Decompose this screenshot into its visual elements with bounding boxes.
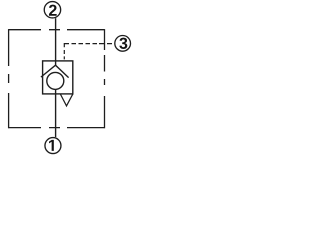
port 1 label [49,140,54,151]
port 2 label [49,5,57,16]
valve box [43,61,73,94]
envelope (dashed boundary) top edge [9,29,105,31]
port 3 label [119,38,127,49]
port 1 circle [45,138,61,154]
envelope left edge [8,29,10,128]
port 2 circle [44,2,60,18]
seat (V) [41,65,69,77]
pilot dashed line (corner + vertical to box) [64,44,69,60]
pilot dashed line horizontal to port3 [72,43,113,45]
port 3 circle [115,36,131,52]
envelope right edge [104,29,106,128]
envelope bottom edge [9,127,105,129]
wire: main vertical line ball bottom to port1 [55,90,57,138]
wire: main vertical line port2 to seat apex [55,18,57,66]
check ball [47,72,64,89]
pilot triangle below box [60,94,72,106]
